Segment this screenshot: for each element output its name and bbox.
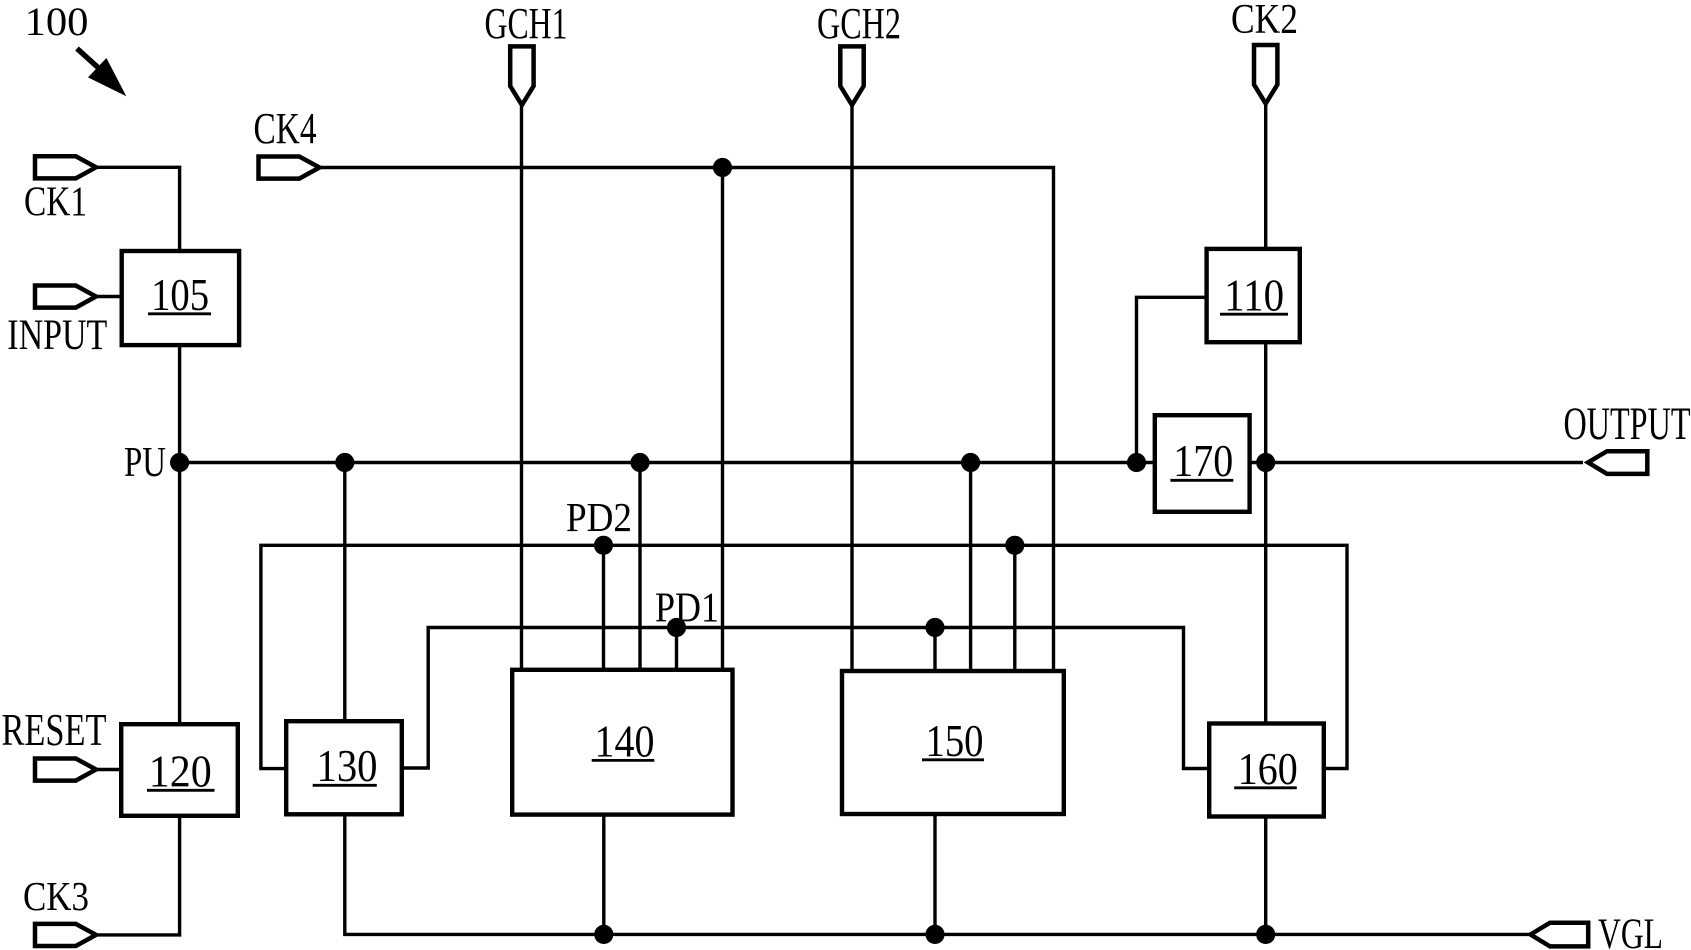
svg-text:GCH2: GCH2 bbox=[817, 0, 901, 48]
block 120 bbox=[121, 724, 238, 816]
svg-text:CK1: CK1 bbox=[24, 180, 87, 226]
terminal flag CK1 bbox=[35, 156, 96, 178]
wire GCH1 down to 140 top bbox=[520, 103, 523, 670]
svg-text:RESET: RESET bbox=[2, 705, 107, 755]
wire PD2 net from 130 left to 160 right bbox=[261, 545, 1347, 768]
terminal flag INPUT bbox=[35, 286, 96, 308]
wire CK4 bus with corner down to 150 top bbox=[317, 168, 1054, 672]
wire PU bus to OUTPUT bbox=[180, 461, 1583, 464]
wire 105 bottom to PU node bbox=[178, 345, 181, 463]
node PD1 dot at 140 bbox=[667, 618, 686, 637]
svg-text:130: 130 bbox=[317, 741, 378, 791]
block 150 bbox=[842, 671, 1064, 814]
terminal flag CK3 bbox=[35, 924, 96, 946]
wire CK4 branch down to 140 top bbox=[721, 168, 724, 671]
wire 110 left to PU node bbox=[1137, 297, 1207, 462]
node PD1 dot at 150 bbox=[925, 618, 944, 637]
wire CK2 down to 110 top bbox=[1264, 102, 1267, 249]
node PU dot at 130 column bbox=[335, 453, 354, 472]
wire CK1 to 105 top bbox=[94, 167, 180, 251]
svg-text:GCH1: GCH1 bbox=[485, 0, 568, 48]
svg-text:PD2: PD2 bbox=[566, 494, 632, 540]
wire PD1 net from 130 right to 160 left bbox=[402, 628, 1209, 769]
node VGL dot at 150 bbox=[925, 925, 944, 944]
block 140 bbox=[512, 670, 732, 815]
block 170 bbox=[1155, 415, 1250, 512]
node PD2 dot at 140 bbox=[594, 536, 613, 555]
wire PD2 stub to 150 top bbox=[1013, 545, 1016, 671]
node PU dot at CK2 column bbox=[1256, 453, 1275, 472]
terminal flag OUTPUT bbox=[1588, 451, 1647, 474]
svg-text:PD1: PD1 bbox=[655, 586, 719, 632]
wire INPUT to 105 left bbox=[94, 295, 121, 298]
svg-text:CK4: CK4 bbox=[254, 104, 317, 153]
block 105 bbox=[122, 251, 239, 345]
terminal flag VGL bbox=[1531, 923, 1589, 947]
block 160 bbox=[1209, 724, 1324, 817]
node PU dot at 150 column bbox=[961, 453, 980, 472]
node PU dot at 140 column bbox=[630, 453, 649, 472]
svg-text:INPUT: INPUT bbox=[7, 312, 107, 359]
terminal flag GCH2 bbox=[840, 46, 863, 105]
node PU dot at 110 link bbox=[1127, 453, 1146, 472]
wire 150 bottom to VGL bbox=[933, 814, 936, 934]
terminal flag CK2 bbox=[1254, 45, 1277, 104]
terminal flag GCH1 bbox=[510, 46, 533, 105]
svg-text:VGL: VGL bbox=[1598, 911, 1663, 950]
wire 110 bottom through PU to 160 top bbox=[1264, 344, 1267, 723]
svg-text:PU: PU bbox=[124, 440, 166, 486]
wire PU down to 120 top bbox=[178, 463, 181, 725]
wire CK3 to 120 bottom bbox=[94, 816, 180, 935]
wire PU node to 140 top bbox=[638, 463, 641, 671]
wire 140 bottom to VGL bbox=[602, 815, 605, 934]
svg-text:OUTPUT: OUTPUT bbox=[1564, 398, 1691, 450]
terminal flag RESET bbox=[35, 759, 96, 781]
svg-text:100: 100 bbox=[25, 0, 89, 44]
wire 130 bottom to VGL bus to VGL flag bbox=[345, 814, 1531, 934]
terminal flag CK4 bbox=[259, 157, 320, 179]
node PU dot at 105/120 column bbox=[170, 453, 189, 472]
node PD2 dot at 150 bbox=[1005, 536, 1024, 555]
svg-text:CK2: CK2 bbox=[1231, 0, 1298, 43]
block 130 bbox=[286, 721, 402, 814]
wire PD1 stub to 150 top bbox=[933, 628, 936, 672]
wire 160 bottom to VGL bbox=[1264, 817, 1267, 934]
svg-text:170: 170 bbox=[1173, 436, 1233, 486]
wire PU node to 150 top bbox=[969, 463, 972, 672]
block 110 bbox=[1207, 249, 1300, 342]
wire GCH2 down to 150 top bbox=[850, 103, 853, 671]
wire PU node to 130 top bbox=[343, 463, 346, 722]
node VGL dot at 160 bbox=[1256, 925, 1275, 944]
node VGL dot at 140 bbox=[594, 925, 613, 944]
svg-text:CK3: CK3 bbox=[23, 873, 89, 919]
arrow 100 pointer bbox=[77, 49, 98, 68]
wire PD2 stub to 140 top bbox=[602, 545, 605, 670]
wire RESET to 120 left bbox=[94, 768, 121, 771]
node CK4 dot bbox=[713, 158, 732, 177]
wire PD1 stub to 140 top bbox=[675, 628, 678, 671]
